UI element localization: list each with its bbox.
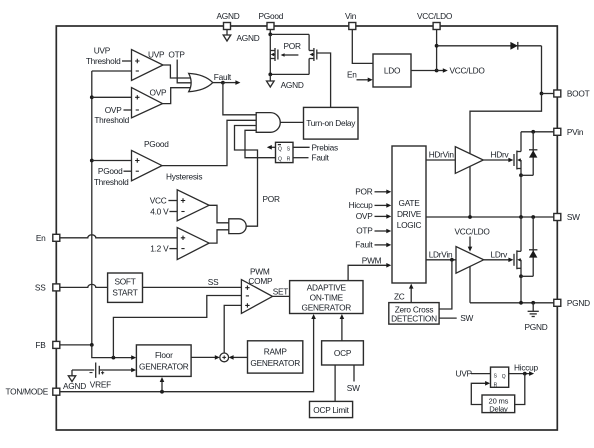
- buffer LDrv driver: [456, 247, 484, 274]
- node Fault junction: [221, 81, 225, 85]
- node hiccup junction: [523, 372, 527, 376]
- wire latch Qbar stub arrow: [267, 145, 276, 150]
- op-amp PGood comparator: [132, 150, 163, 180]
- svg-text:AGND: AGND: [63, 381, 86, 391]
- wire 1.2V stub: [169, 248, 177, 250]
- svg-text:OVP: OVP: [356, 211, 373, 221]
- pin TON/MODE: [6, 387, 60, 397]
- wire OTP stub to OR: [177, 60, 196, 83]
- svg-text:PVin: PVin: [567, 127, 584, 137]
- wire TON/MODE to adaptive on-time: [60, 314, 316, 392]
- wire FB to PWM comp minus: [113, 296, 241, 358]
- node POR bottom junction: [268, 73, 272, 77]
- wire POR cell top: [270, 33, 309, 35]
- svg-text:DRIVE: DRIVE: [397, 209, 422, 219]
- wire VCC comp to POR AND: [209, 205, 229, 223]
- wire LDrVin: [426, 259, 456, 261]
- wire AGND to VREF battery: [72, 369, 94, 371]
- svg-text:TON/MODE: TON/MODE: [6, 387, 49, 397]
- node VCC/LDO boot junction: [435, 44, 439, 48]
- wire OCP limit to OCP: [334, 365, 336, 401]
- block 20 ms Delay: [482, 395, 515, 414]
- wire FB bus vertical: [91, 71, 93, 345]
- svg-text:UVP: UVP: [456, 369, 473, 379]
- gate OR (fault): [189, 73, 213, 91]
- wire AND output to Turn-on Delay: [280, 121, 303, 123]
- wire POR arrow: [375, 190, 392, 195]
- diode D2 (low-side body diode): [529, 217, 537, 276]
- wire LDrv arrow to gate: [484, 258, 514, 263]
- pin SS: [35, 282, 60, 292]
- svg-text:En: En: [36, 233, 46, 243]
- op-amp UVP comparator: [132, 50, 164, 81]
- node bus FB junction: [90, 343, 94, 347]
- svg-text:VCC: VCC: [150, 196, 167, 206]
- node Q2 source junction: [519, 274, 523, 278]
- wire TON/MODE arrow into floor gen bottom: [160, 377, 165, 392]
- svg-text:PWM: PWM: [250, 266, 270, 276]
- wire SS to PWM comp: [143, 286, 242, 288]
- svg-text:Hysteresis: Hysteresis: [166, 172, 202, 182]
- wire POR cell right leg lower: [308, 59, 310, 75]
- pin FB: [35, 340, 59, 350]
- svg-text:GENERATOR: GENERATOR: [302, 302, 352, 312]
- svg-text:PGood: PGood: [259, 11, 284, 21]
- wire Q2 source to diode: [521, 275, 533, 277]
- wire VREF to floor gen in2: [99, 369, 133, 371]
- svg-text:OTP: OTP: [168, 50, 185, 60]
- wire boot diode to BOOT: [541, 46, 543, 94]
- wire VCC/LDO output arrow: [437, 68, 448, 73]
- svg-text:SOFT: SOFT: [114, 277, 135, 287]
- svg-text:LDO: LDO: [384, 66, 401, 76]
- block RAMP GENERATOR: [248, 341, 303, 373]
- wire 1.2V comp to POR AND: [209, 230, 229, 243]
- svg-text:PGND: PGND: [525, 322, 548, 332]
- svg-text:4.0 V: 4.0 V: [150, 207, 169, 217]
- wire Q1 source to SW: [520, 175, 522, 217]
- wire AGND pin to ground: [226, 30, 228, 36]
- transistor M2 (POR right FET): [309, 48, 317, 61]
- svg-text:Q: Q: [278, 146, 282, 152]
- wire HDrVin: [426, 159, 455, 161]
- wire Prebias into latch S: [293, 146, 310, 148]
- svg-text:Turn-on Delay: Turn-on Delay: [306, 118, 356, 128]
- node BOOT junction: [540, 92, 544, 96]
- op-amp VCC comparator: [177, 190, 209, 221]
- wire Fault arrow: [375, 243, 392, 248]
- svg-text:SW: SW: [347, 383, 360, 393]
- wire VCC/LDO to boot diode: [437, 45, 542, 47]
- wire ramp gen to summer: [229, 355, 248, 360]
- wire Hiccup arrow: [375, 203, 392, 208]
- svg-text:Fault: Fault: [355, 239, 373, 249]
- svg-text:VCC/LDO: VCC/LDO: [455, 227, 491, 237]
- node SW diode junction: [531, 215, 535, 219]
- node bus OVP junction: [90, 95, 94, 99]
- diode D3 (boot diode): [510, 42, 517, 50]
- svg-text:Floor: Floor: [155, 350, 173, 360]
- wire arrow into floor gen in2: [131, 368, 136, 373]
- battery VREF: [90, 363, 112, 390]
- node FB floor junction: [112, 356, 116, 360]
- wire UVP threshold stub: [122, 60, 132, 62]
- wire FB bus to OVP plus: [92, 96, 132, 98]
- svg-text:AGND: AGND: [281, 80, 304, 90]
- wire FB bus to UVP minus: [92, 70, 132, 72]
- ground AGND (VREF): [63, 370, 86, 391]
- wire OCP arrow into adaptive on-time: [340, 314, 345, 341]
- gate AND (POR): [229, 219, 246, 234]
- label PWM COMP: [248, 266, 273, 286]
- svg-text:LDrVin: LDrVin: [429, 249, 453, 259]
- svg-text:AGND: AGND: [237, 33, 260, 43]
- wire PVin to high-side FET drain: [521, 131, 554, 133]
- ground PGND symbol: [525, 303, 548, 332]
- svg-text:OCP: OCP: [334, 348, 352, 358]
- svg-text:OCP Limit: OCP Limit: [313, 405, 349, 415]
- svg-text:Q: Q: [502, 374, 506, 380]
- svg-text:En: En: [347, 70, 357, 80]
- wire LDO output: [411, 70, 437, 72]
- pin Vin (top): [345, 11, 357, 30]
- svg-text:SET: SET: [273, 287, 289, 297]
- svg-text:Threshold: Threshold: [86, 56, 121, 66]
- svg-text:VCC/LDO: VCC/LDO: [450, 66, 486, 76]
- transistor M1 (POR left FET): [270, 48, 278, 61]
- block OCP: [322, 341, 364, 365]
- block GATE DRIVE LOGIC: [392, 146, 426, 283]
- op-amp PWM COMP: [241, 280, 272, 314]
- svg-text:AGND: AGND: [217, 11, 240, 21]
- node PGood/POR top junction: [268, 33, 272, 37]
- wire PGood threshold stub: [124, 170, 132, 172]
- pin En: [36, 233, 60, 243]
- wire floor gen to summer: [191, 355, 220, 360]
- wire PWM comp to adaptive on-time: [273, 295, 290, 297]
- svg-text:GATE: GATE: [399, 198, 421, 208]
- wire FB bus to PGood plus: [92, 160, 132, 162]
- wire Q1 source to diode: [521, 174, 533, 176]
- wire latch Q to AND in4: [245, 130, 276, 157]
- svg-text:PGND: PGND: [567, 298, 590, 308]
- label PGood Threshold: [94, 166, 129, 187]
- op-amp En comparator: [177, 228, 209, 260]
- node PVin diode junction: [531, 130, 535, 134]
- node PGND gnd junction: [531, 301, 535, 305]
- label UVP Threshold: [86, 46, 121, 67]
- svg-text:Hiccup: Hiccup: [349, 200, 373, 210]
- wire Fault into latch R: [293, 157, 309, 159]
- wire Vin pin to LDO: [352, 30, 373, 64]
- svg-text:HDrVin: HDrVin: [429, 150, 455, 160]
- svg-text:Delay: Delay: [489, 405, 508, 414]
- svg-text:PGood: PGood: [98, 166, 123, 176]
- wire POR net to AND in3: [235, 126, 258, 227]
- svg-text:POR: POR: [284, 41, 301, 51]
- svg-text:PWM: PWM: [362, 256, 382, 266]
- wire SW stub into OCP: [353, 365, 355, 382]
- wire PWM from adaptive on-time to logic: [348, 263, 391, 281]
- wire POR cell left leg: [269, 34, 271, 74]
- svg-text:R: R: [287, 156, 291, 162]
- svg-text:ADAPTIVE: ADAPTIVE: [307, 283, 347, 293]
- svg-text:POR: POR: [263, 194, 280, 204]
- wire En to 1.2V comparator (hop over FB bus): [60, 235, 177, 238]
- block Turn-on Delay: [304, 107, 359, 139]
- node PGND Q2 junction: [519, 301, 523, 305]
- wire OTP arrow: [375, 229, 392, 234]
- svg-text:Q: Q: [278, 156, 282, 162]
- svg-text:Fault: Fault: [312, 153, 330, 163]
- node SW Q junction: [519, 215, 523, 219]
- node Q1 source junction: [519, 173, 523, 177]
- wire VCC stub: [168, 200, 177, 202]
- wire VCC/LDO arrow into LDrv driver: [468, 237, 473, 252]
- wire Fault to AND in1: [223, 83, 256, 115]
- wire latch Q to Hiccup arrow: [509, 371, 534, 376]
- svg-text:OTP: OTP: [356, 226, 373, 236]
- summing node: [220, 353, 229, 362]
- node TON/MODE floor junction: [160, 390, 164, 394]
- label OVP Threshold: [94, 105, 129, 125]
- wire Fault arrow: [223, 80, 241, 85]
- wire HDrv arrow to gate: [483, 158, 513, 163]
- svg-text:R: R: [494, 382, 498, 388]
- diode D1 (high-side body diode): [529, 132, 537, 176]
- svg-text:START: START: [112, 288, 137, 298]
- svg-text:GENERATOR: GENERATOR: [250, 358, 300, 368]
- wire ZC arrow into logic: [409, 284, 414, 303]
- block OCP Limit: [310, 401, 353, 417]
- node LDrVin junction: [450, 258, 454, 262]
- wire LDrv driver bottom to PGND: [469, 266, 471, 303]
- svg-text:ON-TIME: ON-TIME: [310, 292, 344, 302]
- buffer HDrv driver: [455, 147, 483, 174]
- svg-text:UVP: UVP: [148, 50, 165, 60]
- svg-text:OVP: OVP: [105, 105, 122, 115]
- block LDO: [373, 54, 411, 87]
- wire arrow into floor gen in1: [131, 355, 136, 360]
- wire PGood comp output to AND in2: [162, 120, 256, 165]
- svg-text:UVP: UVP: [94, 46, 111, 56]
- svg-text:SW: SW: [460, 313, 473, 323]
- svg-text:LOGIC: LOGIC: [397, 220, 422, 230]
- IC boundary: [56, 26, 557, 430]
- wire SW into zero cross: [439, 317, 457, 319]
- wire to BOOT pin: [542, 93, 554, 95]
- pin PGND: [554, 298, 590, 308]
- svg-text:GENERATOR: GENERATOR: [139, 362, 189, 372]
- svg-text:LDrv: LDrv: [491, 249, 509, 259]
- pin BOOT: [554, 89, 590, 99]
- wire UVP into latch S: [471, 373, 491, 375]
- wire hiccup to delay: [515, 374, 525, 405]
- svg-text:RAMP: RAMP: [264, 347, 288, 357]
- svg-text:Fault: Fault: [214, 72, 232, 82]
- wire OVP arrow: [375, 214, 392, 219]
- wire En arrow into LDO: [357, 78, 373, 83]
- wire VCC/LDO pin down: [436, 30, 438, 71]
- svg-text:FB: FB: [35, 340, 46, 350]
- block Floor GENERATOR: [136, 345, 191, 377]
- block Zero Cross DETECTION: [389, 303, 439, 325]
- svg-text:1.2 V: 1.2 V: [150, 244, 169, 254]
- node SW HDrv junction: [468, 215, 472, 219]
- wire M2 gate to Turn-on Delay: [317, 53, 331, 107]
- pin VCC/LDO (top): [417, 11, 453, 30]
- wire FB to bus: [60, 344, 92, 346]
- svg-text:ZC: ZC: [394, 292, 405, 302]
- wire POR gate arrow: [281, 53, 299, 57]
- wire 4.0V stub: [169, 211, 177, 213]
- pin SW: [554, 212, 580, 222]
- wire POR cell bottom: [270, 73, 309, 75]
- wire UVP output to OR: [163, 65, 196, 78]
- wire Q2 source to PGND: [520, 276, 522, 303]
- svg-text:SS: SS: [35, 282, 46, 292]
- svg-text:PGood: PGood: [144, 139, 169, 149]
- ground AGND (POR block): [267, 80, 304, 90]
- gate AND (enable, 4-input): [256, 113, 280, 133]
- svg-text:Vin: Vin: [345, 11, 357, 21]
- svg-text:COMP: COMP: [248, 276, 273, 286]
- pin PVin: [554, 127, 584, 137]
- transistor Q1 (high-side FET): [514, 132, 521, 176]
- wire summer to PWM comp plus: [224, 305, 241, 353]
- svg-text:Prebias: Prebias: [312, 142, 338, 152]
- pin PGood (top): [259, 11, 284, 30]
- wire bootstrap to HDrv driver: [470, 94, 542, 154]
- svg-text:Threshold: Threshold: [94, 177, 129, 187]
- svg-text:HDrv: HDrv: [491, 150, 510, 160]
- wire PGND rail: [470, 302, 554, 304]
- wire OR output to Fault: [213, 82, 223, 84]
- svg-text:DETECTION: DETECTION: [391, 314, 437, 324]
- wire POR cell right leg upper: [308, 34, 310, 50]
- latch U3 (hiccup SR): [491, 367, 509, 388]
- svg-text:SW: SW: [567, 212, 580, 222]
- wire OVP threshold stub: [124, 109, 132, 111]
- wire POR block to ground: [269, 74, 271, 81]
- transistor Q2 (low-side FET): [514, 217, 521, 276]
- block SOFT START: [108, 273, 143, 302]
- node bus PGood junction: [90, 159, 94, 163]
- block ADAPTIVE ON-TIME GENERATOR: [290, 281, 363, 314]
- svg-text:VCC/LDO: VCC/LDO: [417, 11, 453, 21]
- wire SW rail: [426, 216, 554, 218]
- node LDO output junction: [435, 69, 439, 73]
- wire zero cross to LDrVin: [439, 260, 452, 309]
- svg-text:OVP: OVP: [150, 88, 167, 98]
- wire delay to latch R arrow: [471, 381, 490, 405]
- svg-text:VREF: VREF: [90, 380, 111, 390]
- op-amp OVP comparator: [132, 88, 163, 118]
- pin AGND (top): [217, 11, 240, 30]
- svg-text:BOOT: BOOT: [567, 89, 590, 99]
- wire OVP output to OR: [163, 88, 196, 104]
- wire SS to soft start (hop over FB bus): [60, 284, 108, 287]
- latch U2 (prebias SR): [276, 142, 294, 162]
- wire HDrv driver bottom to SW: [469, 167, 471, 217]
- wire FB down to floor generator: [92, 345, 133, 358]
- svg-text:Hiccup: Hiccup: [514, 363, 538, 373]
- wire PGood pin down: [269, 30, 271, 35]
- ground AGND (top): [223, 33, 260, 43]
- svg-text:SS: SS: [208, 277, 219, 287]
- svg-text:POR: POR: [355, 186, 372, 196]
- svg-text:Threshold: Threshold: [94, 115, 129, 125]
